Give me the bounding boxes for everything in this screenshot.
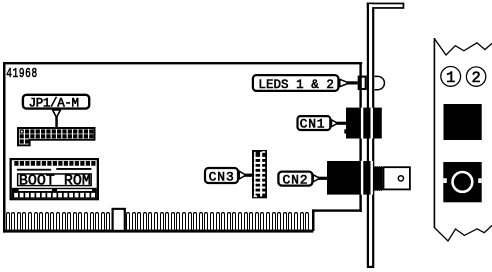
node label CN2 xyxy=(278,172,312,188)
svg-text:LEDS 1 & 2: LEDS 1 & 2 xyxy=(258,78,334,92)
connector CN2 (BNC port) xyxy=(327,161,410,195)
node label CN1 xyxy=(298,116,331,131)
wire pointer from CN2 label to connector xyxy=(313,175,328,182)
node legend panel (torn paper strip) xyxy=(434,38,492,241)
wire pointer from JP1/A-M label to header xyxy=(53,110,61,128)
edge connector key notch tab xyxy=(112,208,126,230)
svg-text:CN2: CN2 xyxy=(283,172,309,187)
LED LEDs 1 & 2 indicator xyxy=(359,76,385,89)
node label CN3 xyxy=(205,168,238,184)
node label LEDS 1 & 2 xyxy=(253,75,339,92)
svg-text:BOOT ROM: BOOT ROM xyxy=(19,172,91,189)
wire card outline (PCB edge) xyxy=(3,62,362,233)
node label JP1/A-M xyxy=(23,95,89,111)
svg-text:1: 1 xyxy=(446,69,455,87)
svg-text:CN3: CN3 xyxy=(209,169,235,184)
wire pointer from LEDS label to LED xyxy=(340,79,358,86)
node card ID number 41968 xyxy=(6,66,37,81)
edge connector fingers (card edge contacts) xyxy=(6,212,309,230)
wire pointer from CN3 label to header xyxy=(239,171,252,179)
jumper header JP1 (14x2 pins + 2 pin extension) xyxy=(17,127,96,146)
bracket mounting bracket xyxy=(367,3,405,268)
node circled number 2 xyxy=(466,67,485,87)
connector CN1 (DIX/AUI port) xyxy=(344,108,382,139)
svg-text:CN1: CN1 xyxy=(300,116,326,131)
connector CN3 (2x9 pin header) xyxy=(252,150,267,198)
IC BOOT ROM in socket xyxy=(10,158,100,200)
svg-text:JP1/A-M: JP1/A-M xyxy=(29,96,79,110)
connector legend AUI port (black square) xyxy=(444,104,482,140)
svg-text:41968: 41968 xyxy=(6,66,37,81)
node circled number 1 xyxy=(441,67,461,88)
connector legend BNC port xyxy=(443,162,481,202)
wire pointer from CN1 label to connector xyxy=(332,120,347,127)
svg-text:2: 2 xyxy=(472,69,481,87)
